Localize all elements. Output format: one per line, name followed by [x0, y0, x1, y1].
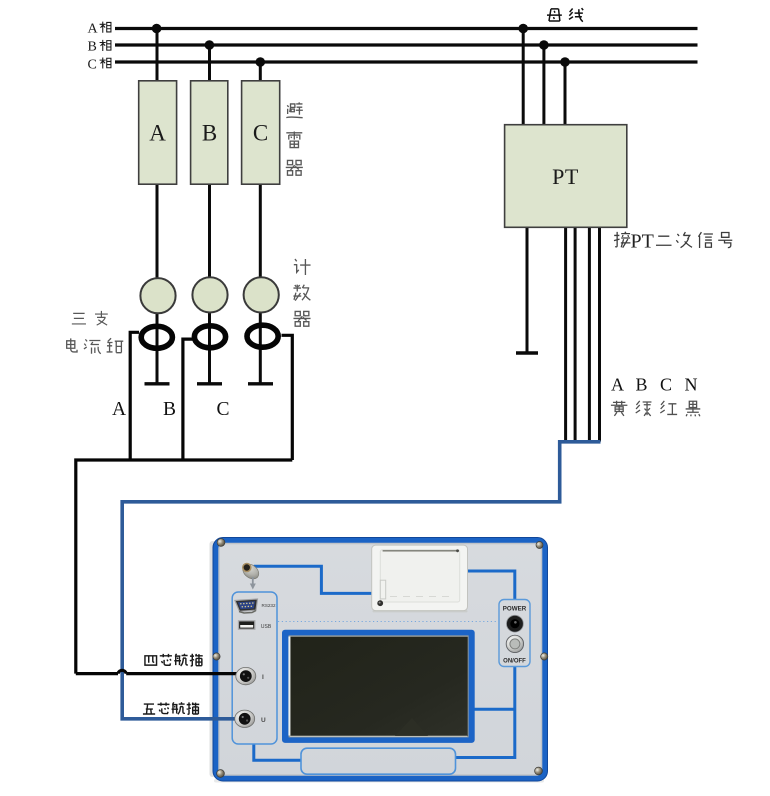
svg-text:A B C N: A B C N	[611, 375, 702, 395]
svg-text:B: B	[163, 399, 176, 420]
svg-text:A: A	[112, 399, 126, 420]
svg-text:U: U	[261, 717, 266, 724]
svg-text:I: I	[262, 674, 264, 681]
svg-text:C: C	[253, 121, 268, 146]
svg-text:RS232: RS232	[262, 603, 276, 608]
svg-text:B: B	[202, 121, 217, 146]
svg-text:C: C	[88, 57, 97, 72]
svg-text:USB: USB	[261, 624, 272, 630]
svg-text:ON/OFF: ON/OFF	[503, 659, 526, 665]
svg-text:C: C	[216, 399, 229, 420]
svg-text:POWER: POWER	[503, 606, 527, 613]
svg-text:B: B	[88, 40, 97, 55]
svg-text:PT: PT	[631, 231, 654, 253]
svg-text:PT: PT	[552, 164, 579, 189]
svg-text:A: A	[149, 121, 166, 146]
svg-text:A: A	[88, 22, 99, 37]
